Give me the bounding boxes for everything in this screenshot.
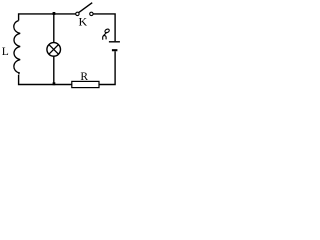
- node: top junction dot: [53, 12, 56, 15]
- battery short thick plate (-): [112, 49, 118, 51]
- svg-text:L: L: [2, 46, 9, 58]
- wire: top rail right segment (switch to top-right corner): [93, 14, 115, 41]
- switch left contact circle: [76, 12, 79, 15]
- switch K: [76, 3, 93, 16]
- wire: bottom rail left segment (resistor to bottom-left corner): [19, 75, 72, 85]
- node: bottom junction dot: [53, 82, 56, 85]
- switch right contact circle: [90, 12, 93, 15]
- switch blade: [79, 3, 93, 13]
- lamp (circle with X): [47, 43, 61, 57]
- wire: right rail lower segment (battery to bottom-right corner): [99, 51, 115, 84]
- background: [0, 0, 125, 94]
- battery long plate (+): [109, 41, 120, 43]
- inductor L coil: [14, 21, 20, 75]
- label epsilon (EMF): [103, 28, 110, 39]
- wire: lamp branch vertical: [53, 14, 55, 85]
- wire: top rail left segment (top-left corner to switch left terminal): [19, 14, 76, 21]
- svg-text:K: K: [79, 15, 88, 29]
- svg-text:R: R: [80, 71, 88, 83]
- resistor R box: [72, 81, 99, 87]
